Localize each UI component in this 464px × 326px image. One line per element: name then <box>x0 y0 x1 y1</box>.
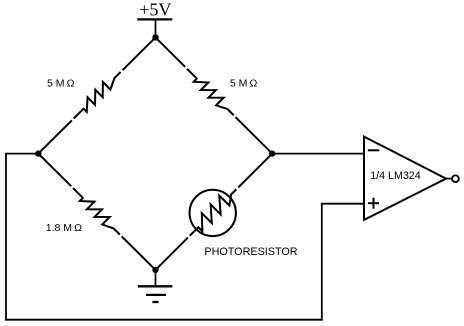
node ground bottom junction dot <box>152 267 158 273</box>
wire <box>122 236 156 270</box>
svg-text:1/4 LM324: 1/4 LM324 <box>370 170 421 182</box>
wire <box>156 37 186 67</box>
wire <box>155 19 157 37</box>
svg-text:1.8 M Ω: 1.8 M Ω <box>46 222 82 234</box>
wire <box>446 178 452 180</box>
wire <box>238 154 272 188</box>
op-amp inverting input label - <box>368 149 380 151</box>
resistor R1 5 Mohm <box>74 72 121 119</box>
wire <box>6 153 38 155</box>
wire <box>272 153 364 155</box>
svg-text:5 M Ω: 5 M Ω <box>47 78 75 90</box>
wire <box>155 270 157 286</box>
node VCC top junction dot <box>152 34 158 40</box>
power +5V <box>137 0 172 20</box>
svg-text:+5V: +5V <box>139 0 171 20</box>
op-amp output terminal <box>452 175 459 182</box>
wire <box>5 319 323 321</box>
op-amp non-inverting input label + <box>368 198 379 209</box>
resistor R2 5 Mohm <box>187 69 234 116</box>
wire <box>123 37 156 70</box>
svg-text:PHOTORESISTOR: PHOTORESISTOR <box>204 246 297 258</box>
wire <box>236 117 273 153</box>
wire <box>38 154 71 187</box>
ground <box>138 286 173 302</box>
resistor R3 1.8 Mohm <box>73 188 120 235</box>
op-amp U1 1/4 LM324 <box>364 137 446 220</box>
node A left junction dot <box>35 150 41 156</box>
photoresistor <box>190 189 237 236</box>
wire <box>321 203 364 205</box>
wire <box>38 120 72 153</box>
wire <box>156 238 188 270</box>
svg-text:5 M Ω: 5 M Ω <box>230 78 258 90</box>
wire <box>5 153 7 321</box>
wire <box>321 204 323 321</box>
node B right junction dot <box>269 150 275 156</box>
